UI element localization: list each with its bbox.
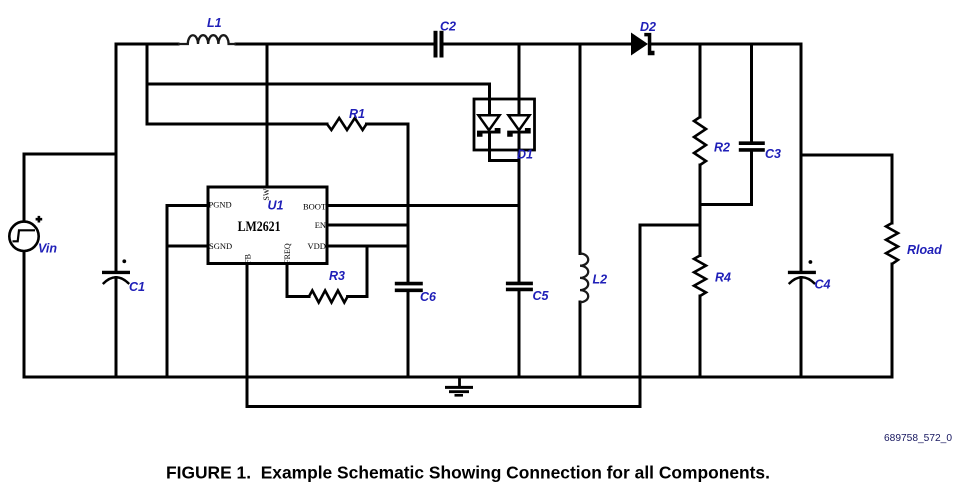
svg-text:C5: C5 bbox=[533, 289, 550, 303]
svg-text:R2: R2 bbox=[714, 141, 730, 155]
svg-text:C2: C2 bbox=[440, 20, 456, 34]
svg-text:C4: C4 bbox=[815, 278, 831, 292]
svg-text:D1: D1 bbox=[517, 148, 533, 162]
svg-text:Vin: Vin bbox=[38, 242, 57, 256]
svg-text:R4: R4 bbox=[715, 271, 731, 285]
svg-text:D2: D2 bbox=[640, 20, 656, 34]
svg-text:EN: EN bbox=[315, 220, 326, 230]
svg-text:LM2621: LM2621 bbox=[238, 219, 281, 235]
svg-text:L1: L1 bbox=[207, 16, 222, 30]
svg-text:L2: L2 bbox=[593, 273, 608, 287]
svg-text:U1: U1 bbox=[268, 199, 284, 213]
svg-text:689758_572_0: 689758_572_0 bbox=[884, 433, 952, 444]
svg-text:R1: R1 bbox=[349, 107, 365, 121]
svg-text:Rload: Rload bbox=[907, 243, 942, 257]
svg-text:C3: C3 bbox=[765, 147, 781, 161]
svg-text:R3: R3 bbox=[329, 269, 345, 283]
svg-text:FREQ: FREQ bbox=[283, 243, 292, 264]
svg-text:PGND: PGND bbox=[209, 200, 232, 210]
svg-text:C1: C1 bbox=[129, 280, 145, 294]
svg-text:SGND: SGND bbox=[209, 241, 232, 251]
svg-text:BOOT: BOOT bbox=[303, 202, 327, 212]
svg-text:C6: C6 bbox=[420, 290, 437, 304]
svg-text:FB: FB bbox=[244, 254, 253, 264]
svg-text:VDD: VDD bbox=[308, 241, 326, 251]
svg-text:FIGURE 1. Example Schematic S: FIGURE 1. Example Schematic Showing Conn… bbox=[166, 463, 770, 483]
